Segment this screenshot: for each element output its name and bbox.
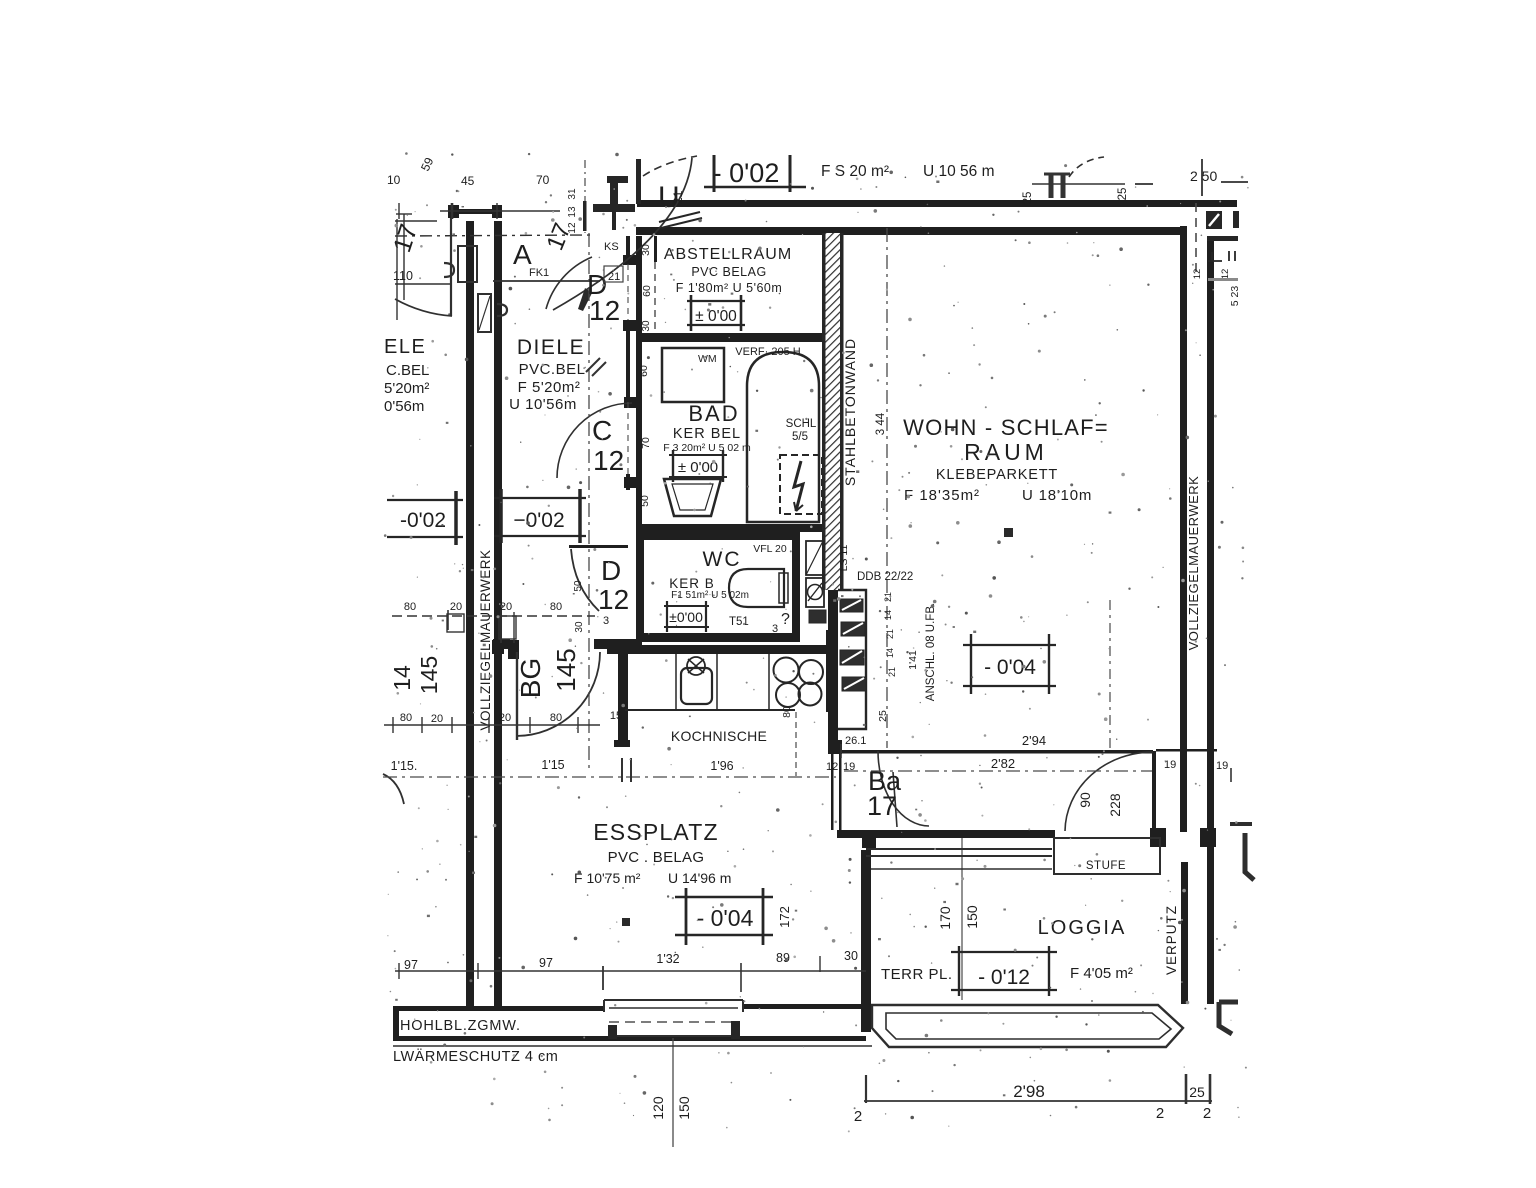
svg-text:BAD: BAD [688, 401, 739, 426]
svg-text:12: 12 [1192, 269, 1203, 280]
svg-text:20: 20 [499, 712, 511, 724]
svg-text:31: 31 [567, 188, 578, 200]
svg-text:5/5: 5/5 [792, 431, 808, 443]
fixture: cooktop burner 1 [774, 658, 799, 683]
svg-text:5 23: 5 23 [1229, 286, 1241, 307]
svg-text:21: 21 [885, 629, 895, 639]
dimline: tick pair at kitchen left [621, 758, 623, 782]
axis: Bad wall dashed inner 2 [627, 402, 629, 474]
svg-text:1'41: 1'41 [907, 650, 919, 670]
door: hook mark 1 [444, 263, 454, 277]
svg-text:14: 14 [885, 648, 895, 658]
entry: vertical jamb line [636, 159, 641, 204]
axis: top right dashed vertical [1195, 203, 1197, 276]
topright: small hooks [1208, 251, 1235, 261]
fixture: cooktop burner 2 [799, 660, 823, 684]
svg-text:VOLLZIEGELMAUERWERK: VOLLZIEGELMAUERWERK [1186, 476, 1201, 651]
svg-text:80: 80 [550, 712, 562, 724]
door BG arc (Diele to Essplatz) [516, 652, 600, 736]
svg-text:PVC.BEL: PVC.BEL [519, 361, 586, 378]
svg-text:2'98: 2'98 [1013, 1082, 1045, 1101]
fixture: kitchen counter line [625, 709, 795, 711]
door D12-WC leaf curve [571, 549, 599, 611]
wall: junction block 4 [624, 477, 642, 488]
svg-text:50: 50 [639, 495, 651, 507]
wall: left double wall line B [494, 221, 502, 1011]
wall: right outer line [1207, 236, 1214, 1004]
wall: junction block 1 [623, 255, 641, 265]
svg-text:C.BEL: C.BEL [386, 362, 429, 379]
svg-text:± 0'00: ± 0'00 [695, 308, 737, 325]
wall: left top wall thin bar [451, 209, 502, 214]
svg-text:2: 2 [854, 1108, 862, 1125]
svg-text:2'82: 2'82 [991, 756, 1015, 771]
wall: block right of loggia door a [1150, 828, 1166, 847]
axis: loggia window center vertical [961, 838, 963, 1000]
wall: junction block at left wall / Essplatz [492, 640, 504, 654]
svg-text:3 44: 3 44 [875, 412, 887, 435]
door BG leaf [516, 652, 518, 740]
svg-text:VOLLZIEGELMAUERWERK: VOLLZIEGELMAUERWERK [478, 549, 493, 730]
svg-text:U 18'10m: U 18'10m [1022, 487, 1092, 504]
svg-text:30: 30 [574, 621, 585, 633]
svg-text:12: 12 [1220, 269, 1231, 280]
svg-text:50: 50 [573, 580, 584, 592]
fixture: duct dark box 4 [842, 677, 866, 691]
svg-text:TERR PL.: TERR PL. [881, 966, 953, 983]
door: entry big arc into Diele [553, 158, 692, 310]
svg-text:T51: T51 [729, 616, 749, 628]
svg-text:- 0'04: - 0'04 [984, 656, 1036, 679]
fixture: kitchen sink [681, 668, 712, 704]
dash segment on top dim line 2 [1221, 181, 1248, 183]
svg-text:12: 12 [593, 445, 624, 476]
svg-text:1'32: 1'32 [656, 952, 679, 966]
wall: WC right wall [792, 532, 800, 642]
svg-text:2 50: 2 50 [1190, 168, 1217, 184]
fixture: duct dark box 1 [840, 599, 863, 612]
dimline: left vertical 110 line [403, 214, 405, 300]
wall: loggia window left jamb block [862, 830, 876, 848]
fixture: counter divider 3 [768, 654, 770, 710]
svg-text:C: C [592, 415, 612, 446]
wall: bottom wall bottom border [393, 1036, 866, 1041]
svg-text:F 10'75 m²: F 10'75 m² [574, 870, 641, 886]
svg-text:LWÄRMESCHUTZ 4 cm: LWÄRMESCHUTZ 4 cm [393, 1048, 558, 1065]
svg-text:−0'02: −0'02 [513, 509, 564, 532]
svg-text:13: 13 [567, 206, 578, 218]
wall: junction block 3 [624, 397, 642, 408]
wall: loggia left wall [861, 850, 871, 1032]
entry: threshold blob [607, 176, 628, 183]
topright: black box with slash [1206, 211, 1222, 229]
svg-text:FK1: FK1 [529, 267, 549, 279]
svg-text:15: 15 [610, 710, 622, 722]
levelmark: -0'12 Loggia [951, 946, 1057, 996]
svg-text:60: 60 [638, 365, 650, 377]
door: neighbour partial arc at left edge [383, 774, 404, 804]
fixture: sink faucet [687, 657, 705, 675]
svg-text:F 3 20m² U 5 02 m: F 3 20m² U 5 02 m [663, 442, 751, 454]
window: loggia glass line 2 [866, 855, 1052, 857]
wall: corridor top line [835, 750, 1153, 754]
wall: right inner line [1180, 226, 1187, 832]
svg-text:19: 19 [1216, 760, 1228, 772]
svg-text:STUFE: STUFE [1086, 860, 1126, 872]
wall: kitchen left wall end cap [614, 740, 630, 747]
svg-text:F1 51m² U 5 02m: F1 51m² U 5 02m [671, 590, 749, 601]
door A17 entry dashed swing [643, 156, 697, 176]
svg-text:WC: WC [703, 548, 742, 571]
svg-text:60: 60 [641, 285, 653, 297]
svg-text:?: ? [781, 611, 790, 628]
svg-text:80: 80 [550, 601, 562, 613]
svg-text:2: 2 [1203, 1105, 1211, 1122]
svg-text:- 0'12: - 0'12 [978, 966, 1030, 989]
svg-text:KLEBEPARKETT: KLEBEPARKETT [936, 467, 1058, 483]
wall: left top block b [492, 205, 502, 218]
wall: Diele/Essplatz wall right segment [594, 639, 638, 649]
dimline: top right thin line [1032, 183, 1125, 185]
svg-text:F S 20 m²: F S 20 m² [821, 163, 889, 180]
wall: WC bottom wall [639, 633, 800, 642]
fixture: cooktop burner 4 [799, 683, 822, 706]
svg-text:80: 80 [781, 706, 793, 718]
svg-text:LOGGIA: LOGGIA [1038, 917, 1127, 939]
topright: faint line [1208, 278, 1238, 281]
svg-text:2'94: 2'94 [1022, 733, 1046, 748]
wall: WC nook top line [569, 545, 628, 548]
door: left apartment panel rect 1 [458, 246, 477, 282]
door: left apartment swing arc [395, 299, 452, 316]
svg-text:0'56m: 0'56m [384, 398, 424, 415]
svg-text:-0'02: -0'02 [400, 509, 446, 532]
fixture: cooktop burner 3 [776, 683, 800, 707]
svg-text:90: 90 [1077, 792, 1093, 808]
svg-text:80: 80 [400, 712, 412, 724]
axis: kitchen dashed vertical [795, 712, 797, 776]
axis: Bad wall dashed inner [627, 264, 629, 320]
svg-text:17: 17 [867, 791, 897, 821]
line: below bottom wall [393, 1045, 872, 1047]
svg-text:DIELE: DIELE [517, 336, 585, 359]
topright: black bar [1233, 211, 1239, 228]
svg-text:WOHN - SCHLAF=: WOHN - SCHLAF= [903, 415, 1109, 440]
svg-text:ELE: ELE [384, 336, 426, 358]
door D12 leaf kite [578, 288, 592, 311]
levelmark: -0'04 Wohnraum [963, 634, 1056, 694]
svg-text:26.1: 26.1 [845, 735, 866, 747]
railing: loggia outer [872, 1005, 1183, 1047]
wall: loggia door right jamb line [1152, 751, 1156, 832]
dash segment on top dim line 1 [1135, 183, 1153, 185]
svg-text:VERF· 205 H: VERF· 205 H [735, 346, 800, 358]
svg-text:- 0'04: - 0'04 [697, 905, 754, 931]
svg-text:97: 97 [539, 956, 553, 970]
wall: Diele/Bad parallel line seg1 [626, 236, 630, 264]
svg-text:D: D [601, 555, 621, 586]
door loggia arc [1065, 752, 1153, 831]
window: loggia glass line 1 [866, 848, 1052, 850]
axis: entry dash-dot vertical [584, 160, 586, 233]
svg-text:12: 12 [567, 222, 578, 234]
wall: left double wall line A [466, 221, 474, 1011]
railing: loggia inner [886, 1013, 1171, 1039]
fixture: duct dark box 2 [841, 622, 865, 636]
svg-text:1'15.: 1'15. [391, 759, 418, 773]
window: bottom Essplatz window [604, 999, 743, 1001]
svg-text:F 1'80m² U 5'60m: F 1'80m² U 5'60m [676, 281, 783, 295]
svg-text:ESSPLATZ: ESSPLATZ [593, 819, 719, 845]
axis: hidden wall dash-dot above Diele [395, 235, 592, 236]
wall: corridor boundary thin line b [839, 754, 842, 830]
door dashed swing top right [1069, 157, 1104, 177]
svg-text:12: 12 [589, 295, 620, 326]
svg-text:21: 21 [883, 592, 893, 602]
svg-text:2: 2 [1156, 1105, 1164, 1122]
svg-text:97: 97 [404, 958, 418, 972]
svg-text:150: 150 [676, 1096, 692, 1120]
door B8 leaf [893, 772, 897, 827]
door D12 arc [546, 257, 592, 309]
axis: bottom window center vertical [672, 1038, 674, 1147]
door: left apartment handle line [395, 283, 451, 285]
svg-text:21: 21 [671, 190, 685, 204]
dimline: 2'98 bottom line [864, 1100, 1212, 1102]
svg-text:25: 25 [1117, 188, 1129, 201]
window: loggia sill [871, 868, 1052, 870]
fixture: shaft dark box bottom [809, 610, 826, 623]
svg-text:10: 10 [387, 173, 401, 187]
corner: right angled piece [1219, 1002, 1238, 1034]
svg-text:30: 30 [844, 949, 858, 963]
svg-text:30: 30 [641, 320, 652, 332]
door C12 arc [557, 403, 632, 478]
dimline: top left horizontal [440, 210, 560, 212]
svg-text:PVC . BELAG: PVC . BELAG [608, 849, 705, 866]
fixture: washbasin Bad [664, 479, 721, 516]
wall: top exterior outer line [637, 200, 1237, 207]
fixture: washing machine WM [662, 348, 724, 402]
wall: hatched wall left border [822, 233, 826, 590]
axis: Essplatz horizontal dash-dot [383, 776, 836, 778]
svg-text:U 10'56m: U 10'56m [509, 396, 577, 413]
wall: hatched concrete wall fill [825, 233, 840, 590]
svg-text:ABSTELLRAUM: ABSTELLRAUM [664, 246, 792, 263]
svg-text:110: 110 [393, 269, 413, 283]
svg-text:172: 172 [777, 906, 792, 928]
wall: Bad bottom wall [636, 524, 828, 532]
dimline: break mark in Diele [586, 358, 600, 372]
levelmark: -0'02 bottom left 2 [494, 489, 586, 543]
svg-text:KOCHNISCHE: KOCHNISCHE [671, 728, 767, 744]
wall: hatched wall right border [840, 233, 844, 590]
svg-text:1'15: 1'15 [541, 758, 564, 772]
levelmark: -0'04 Essplatz [675, 888, 773, 945]
svg-text:KS: KS [604, 241, 619, 253]
wall: Essplatz/Loggia wall [837, 830, 1055, 838]
fixture: duct dark box 3 [840, 650, 864, 665]
svg-text:DDB 22/22: DDB 22/22 [857, 571, 913, 583]
svg-text:±0'00: ±0'00 [669, 609, 703, 625]
svg-text:80: 80 [404, 601, 416, 613]
svg-text:21: 21 [887, 667, 897, 677]
svg-text:170: 170 [937, 906, 953, 930]
svg-text:U 10 56 m: U 10 56 m [923, 163, 995, 180]
svg-text:ANSCHL. 08 U.FB.: ANSCHL. 08 U.FB. [925, 603, 937, 701]
dimline: top right thick tick [1049, 174, 1054, 198]
wall: kitchen top wall [607, 645, 826, 654]
fixture: counter divider 1 [675, 654, 677, 710]
svg-text:STAHLBETONWAND: STAHLBETONWAND [842, 338, 858, 486]
svg-text:20: 20 [450, 601, 462, 613]
axis: Abstellraum west wall dashed [654, 262, 656, 333]
wall: WC top wall [637, 532, 800, 540]
fixture: duct enclosure [838, 590, 866, 729]
levelmark: -0'02 bottom left 1 (cut) [387, 491, 463, 545]
wall: corridor left stub [828, 740, 842, 754]
fixture: shaft box with circle [806, 578, 824, 607]
wall: corridor boundary thin line a [831, 754, 834, 830]
axis: Diele vertical dash-dot [588, 233, 590, 772]
svg-text:45: 45 [461, 174, 475, 188]
svg-text:70: 70 [536, 173, 550, 187]
svg-text:A: A [513, 239, 532, 270]
wall: junction block 2 [623, 320, 641, 331]
fixture: lightning bolt [794, 461, 803, 511]
levelmark: -0'02 top [704, 155, 806, 192]
svg-text:70: 70 [640, 437, 652, 449]
mark: dark dot in Wohnraum [1004, 528, 1013, 537]
dimline: Essplatz row1 line [392, 615, 595, 617]
dimline: Essplatz row2 line [384, 724, 600, 726]
svg-text:21: 21 [608, 271, 620, 283]
scan speckle noise (decorative) [384, 152, 1249, 1132]
wall: kitchen left wall [618, 654, 628, 747]
svg-text:- 0'02: - 0'02 [713, 158, 780, 188]
door: hook mark 2 [497, 304, 507, 316]
svg-text:HOHLBL.ZGMW.: HOHLBL.ZGMW. [400, 1018, 521, 1034]
svg-text:RAUM: RAUM [964, 439, 1048, 465]
svg-text:14: 14 [883, 610, 893, 620]
wall: Abstellraum west wall line [654, 236, 657, 262]
wall: kitchen right wall upper [826, 630, 836, 712]
topright: line below [1207, 236, 1238, 241]
wall: BG door hinge block [508, 640, 519, 659]
wall: bottom wall left cap [393, 1006, 399, 1041]
door B8 arc (Essplatz corridor) [878, 751, 929, 826]
svg-text:BG: BG [515, 658, 546, 698]
wall: block right of loggia door b [1200, 828, 1216, 847]
entry: diagonal threshold lines [659, 212, 702, 228]
svg-text:89: 89 [776, 951, 790, 965]
svg-text:F 5'20m²: F 5'20m² [518, 379, 581, 396]
wall: left top block a [448, 205, 459, 218]
svg-text:SCHL: SCHL [786, 418, 817, 430]
fixture: electric panel dashed box [780, 455, 822, 514]
levelmark: +-0'00 Abstellraum [687, 295, 745, 331]
fixture: counter divider 2 [716, 654, 718, 710]
svg-text:12: 12 [598, 584, 629, 615]
axis: Wohnraum vertical dash-dot [886, 228, 888, 748]
wall: corridor top line right extension [1156, 749, 1217, 752]
wall: WC left wall [638, 535, 644, 642]
fixture: toilet WC [729, 569, 784, 607]
svg-text:KER BEL: KER BEL [673, 426, 741, 442]
wall: Diele/Bad parallel line seg3 [626, 474, 630, 490]
levelmark: +-0'00 Bad [669, 450, 727, 482]
svg-text:20: 20 [431, 713, 443, 725]
svg-text:F 18'35m²: F 18'35m² [904, 487, 980, 504]
window: STUFE box [1054, 838, 1160, 874]
svg-text:5'20m²: 5'20m² [384, 380, 429, 397]
svg-text:25: 25 [1022, 192, 1034, 205]
fixture: bathtub [747, 352, 819, 522]
svg-text:120: 120 [650, 1096, 666, 1120]
svg-text:150: 150 [964, 905, 980, 929]
svg-text:PVC BELAG: PVC BELAG [691, 265, 766, 279]
svg-text:228: 228 [1107, 793, 1123, 817]
dimline: left vertical upper [396, 219, 398, 320]
svg-text:VFL 20: VFL 20 [753, 543, 787, 555]
wall: shaft left wall [828, 586, 838, 753]
svg-text:3: 3 [772, 623, 778, 635]
door: left apartment leaf vertical [450, 218, 452, 316]
wall: Bad top wall [636, 333, 828, 342]
levelmark: +-0'00 WC [664, 601, 709, 632]
wall: Diele/Essplatz wall left segment [493, 639, 510, 649]
svg-text:LS 11: LS 11 [838, 545, 850, 572]
mark: dark dot in Essplatz [622, 918, 630, 926]
dimline: 2'94 ticks [840, 744, 842, 758]
svg-text:14: 14 [389, 665, 415, 691]
wall: Diele/Bad separation main line [636, 236, 642, 648]
svg-text:KER B: KER B [669, 576, 715, 591]
wall: loggia right wall [1181, 862, 1188, 1004]
svg-text:F 4'05 m²: F 4'05 m² [1070, 965, 1133, 982]
svg-text:WM: WM [698, 353, 717, 365]
svg-text:30: 30 [640, 244, 652, 256]
svg-text:25: 25 [1189, 1084, 1205, 1100]
svg-text:145: 145 [416, 656, 442, 694]
axis: corridor horizontal dash-dot [844, 770, 1152, 772]
fixture: shaft box with diagonal (upper) [806, 541, 823, 575]
svg-text:3: 3 [603, 615, 609, 627]
axis: loggia door dashed vertical [1109, 600, 1111, 750]
svg-text:1'96: 1'96 [710, 759, 733, 773]
wall: top exterior inner line [636, 227, 1184, 235]
svg-text:VERPUTZ: VERPUTZ [1164, 905, 1179, 975]
dimline: bottom row line [395, 970, 866, 972]
wall: bottom wall top border left of window [393, 1006, 604, 1011]
wall: Diele/Bad parallel line seg2 [626, 320, 630, 402]
line: vestibule south edge [493, 280, 600, 282]
svg-text:25: 25 [877, 710, 889, 722]
door: left apartment panel rect 2 [478, 294, 491, 332]
svg-text:U 14'96 m: U 14'96 m [668, 870, 731, 886]
corner: far right partial [1245, 833, 1254, 880]
svg-text:145: 145 [551, 648, 581, 691]
wall: bottom wall top border right of window [743, 1004, 866, 1009]
